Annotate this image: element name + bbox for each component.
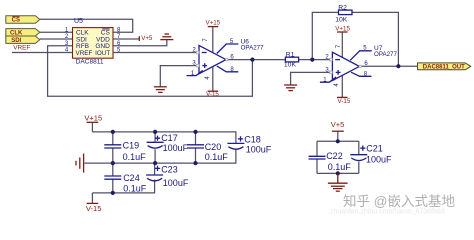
svg-text:100uF: 100uF	[246, 144, 272, 154]
svg-text:C24: C24	[123, 173, 140, 183]
svg-text:0.1uF: 0.1uF	[123, 152, 147, 162]
svg-text:C18: C18	[244, 134, 261, 144]
svg-text:VREF: VREF	[13, 44, 30, 51]
capacitor C21 100uF polarized	[350, 141, 392, 173]
svg-text:R1: R1	[286, 51, 295, 58]
wire RFB feedback net	[48, 46, 253, 96]
svg-text:OPA277: OPA277	[241, 45, 264, 52]
wire CLK	[40, 31, 73, 33]
op-amp U7 OPA277	[320, 26, 398, 105]
svg-text:V+5: V+5	[141, 35, 153, 42]
wire U7 output	[359, 65, 417, 67]
svg-text:SDI: SDI	[11, 38, 21, 44]
junction C20 mid	[193, 161, 197, 165]
wire IOUT to U6	[113, 52, 199, 54]
ground at U6 pin3	[154, 87, 167, 93]
svg-text:C20: C20	[205, 142, 222, 152]
wire U7 pin3 to ground	[291, 72, 333, 85]
IC U5 DAC8811	[65, 18, 121, 65]
wire GND pin	[113, 40, 167, 46]
wire VREF	[12, 52, 73, 54]
svg-text:10K: 10K	[335, 17, 348, 24]
resistor R1	[284, 51, 299, 68]
U7 pin 7 V+15	[337, 31, 347, 33]
junction at R1-R2 node	[310, 58, 314, 62]
svg-text:100uF: 100uF	[163, 143, 189, 153]
U7 pin 1 stub	[320, 77, 336, 82]
resistor R2	[335, 5, 352, 24]
power port V-15 (cap bank)	[86, 193, 102, 213]
svg-text:100uF: 100uF	[163, 178, 189, 188]
capacitor C19 0.1uF	[104, 132, 146, 163]
svg-text:CS: CS	[12, 18, 20, 24]
svg-text:V-15: V-15	[86, 204, 102, 213]
port flag CLK	[6, 29, 40, 37]
svg-text:V-15: V-15	[206, 91, 219, 98]
svg-text:V+5: V+5	[331, 120, 345, 129]
capacitor C20 0.1uF	[187, 132, 228, 163]
U7 pin 8 stub	[351, 72, 372, 76]
wire bottom rail	[92, 180, 154, 193]
svg-text:IOUT: IOUT	[95, 50, 110, 57]
svg-text:OPA277: OPA277	[374, 51, 397, 58]
capacitor C23 100uF polarized	[146, 163, 189, 188]
power port V+5 at VDD	[139, 35, 153, 42]
wire VDD to V+5	[113, 38, 139, 40]
U7 pin 5 stub	[350, 51, 372, 61]
svg-text:C23: C23	[161, 165, 178, 175]
wire top rail	[92, 132, 236, 143]
junction at U6 output / feedback	[250, 58, 254, 62]
wire SDI	[40, 38, 73, 40]
pin hotspot pads	[196, 51, 361, 73]
junction at U7 output / R2	[396, 64, 400, 68]
svg-text:zhuanlan.zhihu.com/hamo_6736f8: zhuanlan.zhihu.com/hamo_6736f863	[330, 209, 445, 216]
op-amp U6 OPA277	[187, 19, 265, 98]
port flag CS	[6, 16, 40, 24]
wire R2 net	[312, 12, 398, 66]
svg-text:10K: 10K	[284, 61, 297, 68]
svg-text:C21: C21	[366, 144, 383, 154]
svg-text:R2: R2	[338, 5, 347, 12]
ground below V+5 block	[328, 173, 348, 191]
ground (left-pointing earth) on mid rail	[76, 154, 84, 173]
svg-text:100uF: 100uF	[366, 155, 392, 165]
svg-text:V-15: V-15	[338, 98, 351, 105]
junction V+5 rail	[336, 139, 340, 143]
capacitor C24 0.1uF	[104, 163, 146, 194]
wire V+5 rails	[317, 141, 359, 173]
svg-text:DAC8811_OUT: DAC8811_OUT	[423, 65, 465, 71]
capacitor C22 0.1uF	[309, 141, 352, 173]
svg-text:C22: C22	[326, 151, 343, 161]
svg-text:V+15: V+15	[84, 113, 102, 122]
svg-text:0.1uF: 0.1uF	[205, 152, 229, 162]
wire CS net	[40, 19, 133, 32]
power port V+5 (bypass block)	[331, 120, 345, 141]
wire mid rail	[84, 149, 236, 163]
port flag DAC8811_OUT	[418, 63, 471, 71]
wire U6 pin3 to ground	[160, 66, 199, 87]
port flag SDI	[6, 36, 40, 44]
svg-text:DAC8811: DAC8811	[76, 59, 104, 66]
svg-text:知乎 @嵌入式基地: 知乎 @嵌入式基地	[343, 193, 455, 209]
U6 pin 7 V+15	[208, 26, 218, 28]
junction C20 top	[193, 130, 197, 134]
power port V+15 (cap bank)	[84, 113, 102, 132]
U7 pin 4 V-15	[337, 96, 347, 98]
wire U6 output row to U7	[226, 59, 332, 61]
U6 pin 4 V-15	[208, 90, 218, 92]
ground at U7 pin3	[284, 85, 297, 91]
svg-text:V+15: V+15	[335, 26, 350, 33]
svg-text:U5: U5	[74, 18, 83, 25]
U6 pin 1 stub	[187, 70, 203, 75]
junction C24 bottom	[111, 191, 115, 195]
junction C19/C24 mid	[111, 161, 115, 165]
junction ground rail	[336, 171, 340, 175]
ground (flipped earth) at DAC GND	[160, 34, 173, 40]
svg-text:0.1uF: 0.1uF	[123, 184, 147, 194]
svg-text:V+15: V+15	[205, 19, 220, 26]
U6 pin 8 stub	[217, 66, 239, 72]
svg-text:VREF: VREF	[76, 50, 93, 57]
capacitor C18 100uF polarized	[227, 134, 271, 154]
svg-text:0.1uF: 0.1uF	[328, 162, 352, 172]
junction C17/C23 mid	[153, 161, 157, 165]
U6 pin 5 stub	[217, 44, 239, 54]
capacitor C17 100uF polarized	[147, 132, 189, 163]
svg-text:C17: C17	[161, 133, 178, 143]
svg-text:C19: C19	[123, 141, 140, 151]
junction C17 top	[153, 130, 157, 134]
junction C19 top	[111, 130, 115, 134]
